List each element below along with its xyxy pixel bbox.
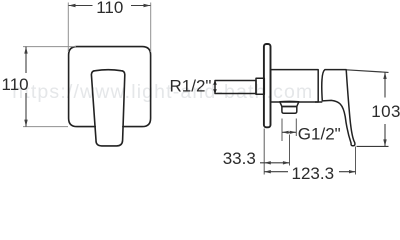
svg-text:103: 103 (371, 102, 400, 121)
ext line lever tip vertical (355, 147, 357, 175)
extension line left-bottom (23, 126, 68, 128)
dimension line top 110 (69, 4, 151, 7)
svg-text:123.3: 123.3 (292, 164, 335, 181)
svg-text:33.3: 33.3 (223, 149, 256, 168)
svg-text:110: 110 (2, 75, 29, 94)
body bottom line under lever (315, 101, 322, 103)
handle front (91, 70, 124, 146)
extension line top-right (150, 3, 152, 53)
extension line top-left (67, 3, 69, 53)
valve body side (271, 70, 319, 102)
ext line fitting center (289, 135, 291, 166)
svg-text:G1/2": G1/2" (298, 124, 341, 143)
pipe end arrow up (213, 80, 217, 85)
ext line nut right (295, 119, 297, 137)
ext line 103 top (346, 70, 388, 73)
escutcheon plate side (264, 44, 271, 127)
dimension line G1/2 (282, 131, 296, 134)
extension line left-top (23, 46, 76, 48)
svg-text:R1/2": R1/2" (170, 76, 212, 95)
svg-text:https://www.light-and-bath.com: https://www.light-and-bath.com (12, 81, 313, 103)
svg-text:110: 110 (96, 0, 123, 17)
lever side (322, 70, 355, 146)
escutcheon plate front (69, 47, 151, 127)
dimension line left 110 (24, 47, 27, 127)
R1/2 pipe end marks (213, 80, 217, 94)
pipe end arrow down (213, 89, 217, 94)
dimension line 103 (383, 72, 386, 146)
dimension line 123.3 (264, 170, 355, 173)
outlet fitting flare (280, 101, 299, 106)
extension lines side view (346, 70, 388, 147)
front view dimension: top 110 extension lines (23, 3, 151, 127)
union block (256, 78, 264, 94)
ext line plate face vertical (263, 129, 265, 175)
dimension line 33.3 (260, 161, 290, 164)
ext line nut left (281, 119, 283, 142)
outlet fitting nut (282, 107, 297, 114)
inlet pipe (215, 81, 256, 94)
ext line 103 bottom (357, 145, 389, 147)
